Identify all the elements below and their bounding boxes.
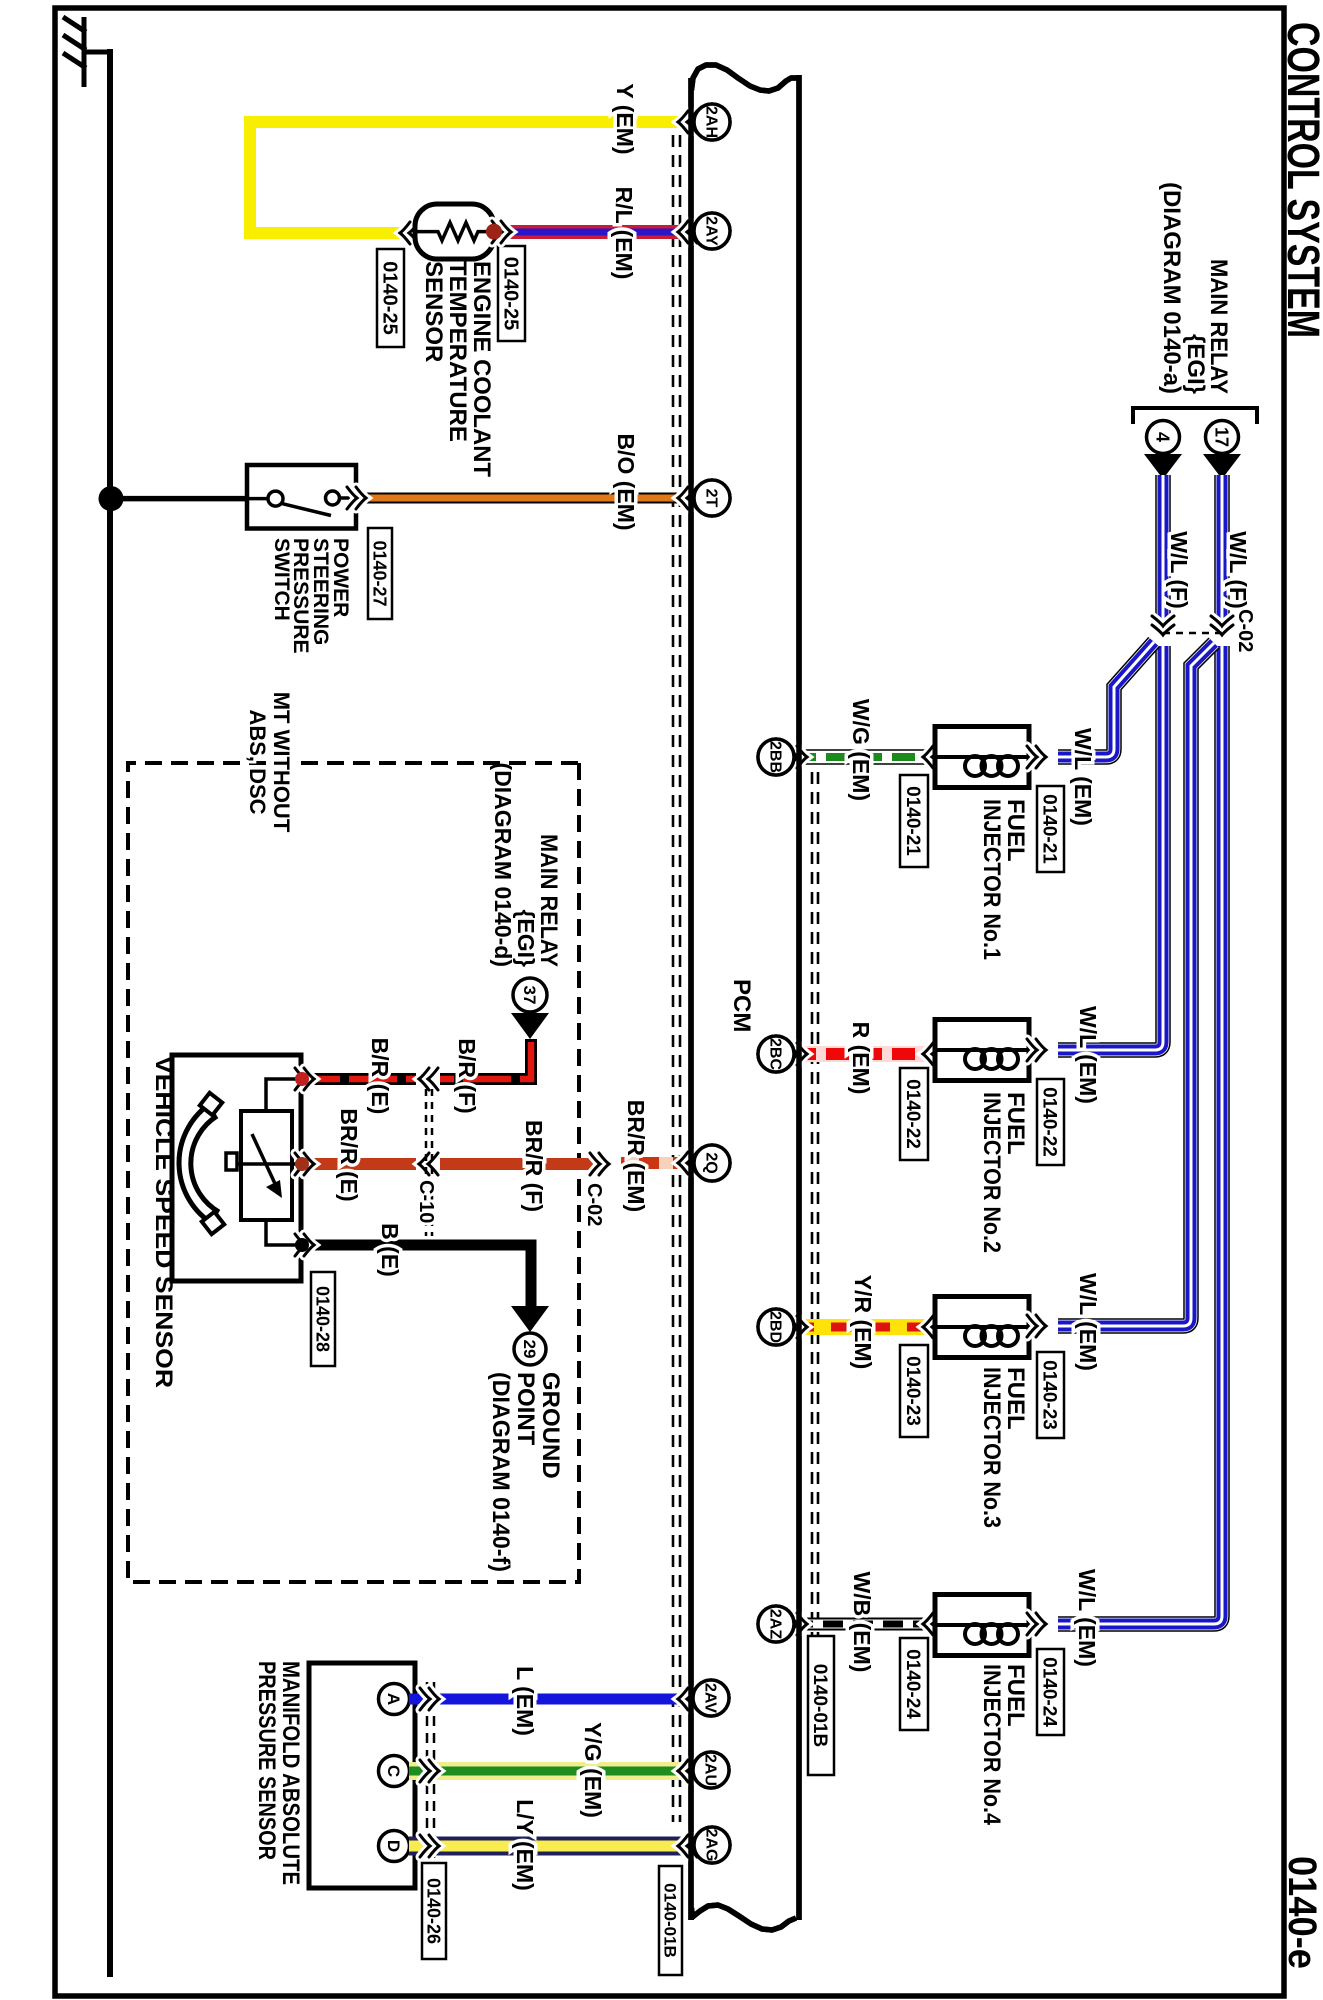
wire Y (EM): [250, 122, 690, 233]
ground symbol: [63, 17, 86, 87]
node VSS pin dots redraw: [295, 1072, 309, 1086]
svg-text:FUEL: FUEL: [1002, 1092, 1029, 1155]
svg-text:17: 17: [1212, 427, 1232, 447]
svg-text:0140-22: 0140-22: [1039, 1087, 1060, 1157]
svg-text:(DIAGRAM 0140-d): (DIAGRAM 0140-d): [490, 763, 516, 967]
wire L/Y (EM): [409, 1837, 690, 1856]
wire W/L pin4 run to injector No.2: [1058, 646, 1163, 1050]
svg-text:4: 4: [1153, 432, 1173, 442]
svg-text:2BD: 2BD: [766, 1311, 783, 1343]
pin C: [379, 1756, 410, 1787]
power steering pressure switch: [247, 465, 356, 529]
chevrons Y/R at PCM: [788, 1316, 807, 1338]
svg-text:0140-25: 0140-25: [378, 261, 400, 334]
svg-text:FUEL: FUEL: [1002, 1367, 1029, 1430]
svg-text:W/L (F): W/L (F): [1225, 531, 1251, 609]
svg-text:R (EM): R (EM): [848, 1022, 874, 1095]
node 2AV: [693, 1680, 729, 1716]
svg-text:ABS, DSC: ABS, DSC: [245, 709, 270, 814]
label 0140-22 right: [1037, 1079, 1064, 1165]
node 2BD: [758, 1309, 794, 1345]
node 2AZ: [758, 1606, 794, 1642]
svg-text:B/R (F): B/R (F): [454, 1038, 480, 1113]
svg-text:L (EM): L (EM): [512, 1666, 538, 1736]
label 0140-23 left: [900, 1345, 928, 1437]
node 2T: [694, 480, 730, 516]
node junction dot on ground bus: [99, 486, 124, 511]
wire BR/R (E)/(F): [302, 1158, 596, 1170]
node VSS pin B/R: [295, 1072, 309, 1086]
pin D: [379, 1831, 410, 1862]
svg-text:Y (EM): Y (EM): [612, 83, 638, 154]
label 0140-25 right: [498, 246, 525, 341]
wire W/L (F) pin17 to C-02: [1214, 475, 1230, 624]
node ECT/R-L junction dot: [486, 224, 502, 240]
svg-text:0140-01B: 0140-01B: [660, 1883, 679, 1958]
svg-text:STEERING: STEERING: [309, 538, 332, 645]
svg-text:PRESSURE SENSOR: PRESSURE SENSOR: [253, 1661, 280, 1860]
node VSS pin BR/R: [295, 1157, 309, 1171]
wire BR/R (EM): [621, 1157, 693, 1169]
fuel injector No.4: [935, 1595, 1029, 1656]
wire EM harness dashed pair (upper): [812, 772, 818, 1636]
svg-text:Y/G (EM): Y/G (EM): [580, 1722, 606, 1818]
svg-text:INJECTOR No.2: INJECTOR No.2: [978, 1092, 1005, 1253]
wire Y/R (EM): [793, 1319, 935, 1335]
MAP dashed pair: [433, 1682, 436, 1858]
node 2BB: [758, 739, 794, 775]
vehicle speed sensor: [172, 1055, 301, 1281]
engine coolant temperature sensor: [415, 204, 494, 259]
node circles redraw: [694, 104, 730, 140]
wire Y/G (EM): [409, 1762, 690, 1780]
svg-text:MAIN RELAY: MAIN RELAY: [1205, 259, 1232, 394]
wire W/B (EM): [793, 1618, 935, 1631]
wire L (EM): [409, 1694, 690, 1705]
svg-text:{EGI}: {EGI}: [1182, 334, 1209, 394]
PCM body redraw: [796, 75, 802, 1920]
svg-text:0140-23: 0140-23: [1039, 1360, 1060, 1430]
svg-text:POWER: POWER: [329, 538, 352, 617]
label 0140-21 right: [1037, 786, 1064, 872]
svg-text:MAIN RELAY: MAIN RELAY: [535, 834, 562, 967]
arrow to main relay 0140-d: [511, 1013, 549, 1039]
svg-text:B/R (E): B/R (E): [367, 1038, 393, 1115]
wire ground bus: [107, 49, 113, 1977]
svg-text:0140-27: 0140-27: [370, 540, 390, 606]
node 2AY: [694, 213, 730, 249]
svg-text:37: 37: [520, 986, 539, 1005]
svg-text:GROUND: GROUND: [537, 1372, 564, 1479]
svg-text:W/L (EM): W/L (EM): [1070, 728, 1096, 826]
node 2AU: [693, 1752, 729, 1788]
node ground point 29: [514, 1333, 546, 1365]
arrow from pin 4: [1144, 454, 1182, 479]
svg-text:0140-23: 0140-23: [902, 1356, 923, 1426]
svg-text:INJECTOR No.1: INJECTOR No.1: [978, 799, 1005, 960]
svg-text:SWITCH: SWITCH: [270, 538, 293, 621]
svg-text:PCM: PCM: [728, 979, 755, 1032]
label 0140-24 left: [900, 1638, 928, 1730]
wire ground link: [85, 50, 110, 55]
connector C-02 break on BR/R: [590, 1153, 609, 1175]
wire W/L branch to injector No.1: [1058, 642, 1154, 757]
svg-text:C-10: C-10: [415, 1180, 437, 1223]
wire B (E) to ground point: [302, 1245, 531, 1306]
svg-text:W/L (F): W/L (F): [1166, 531, 1192, 609]
svg-text:29: 29: [520, 1340, 539, 1359]
svg-text:BR/R (EM): BR/R (EM): [623, 1100, 649, 1212]
PCM body: [691, 65, 799, 1930]
svg-text:C: C: [384, 1765, 403, 1777]
chevrons W/B at PCM: [788, 1613, 807, 1635]
label 0140-22 left: [900, 1068, 928, 1160]
svg-text:W/L (EM): W/L (EM): [1075, 1273, 1101, 1371]
svg-text:2AY: 2AY: [702, 216, 719, 246]
svg-text:2AG: 2AG: [702, 1829, 719, 1862]
label 0140-27: [368, 528, 392, 619]
svg-text:W/B (EM): W/B (EM): [849, 1572, 875, 1673]
label 0140-01B lower: [659, 1866, 682, 1975]
svg-text:2AZ: 2AZ: [766, 1609, 783, 1639]
svg-text:0140-25: 0140-25: [499, 257, 521, 330]
pin 17: [1206, 421, 1239, 454]
svg-text:Y/R (EM): Y/R (EM): [850, 1275, 876, 1370]
svg-text:0140-21: 0140-21: [902, 786, 923, 856]
wire B/R: [302, 1039, 531, 1079]
pin 4: [1147, 421, 1180, 454]
svg-text:MT WITHOUT: MT WITHOUT: [269, 692, 294, 833]
svg-text:0140-26: 0140-26: [424, 1878, 444, 1944]
svg-text:0140-21: 0140-21: [1039, 794, 1060, 864]
svg-text:0140-24: 0140-24: [902, 1649, 923, 1719]
svg-text:2Q: 2Q: [702, 1152, 719, 1173]
svg-text:ENGINE COOLANT: ENGINE COOLANT: [468, 261, 495, 477]
wire R (EM): [793, 1046, 935, 1062]
svg-text:D: D: [384, 1840, 403, 1852]
fuel injector No.3: [935, 1297, 1029, 1358]
svg-text:0140-22: 0140-22: [902, 1079, 923, 1149]
svg-text:B (E): B (E): [377, 1223, 403, 1277]
connector C-02 break: [1211, 616, 1233, 635]
svg-text:(DIAGRAM 0140-a): (DIAGRAM 0140-a): [1158, 182, 1185, 394]
connector C-10 dashes: [431, 1089, 434, 1236]
label 0140-28: [311, 1272, 335, 1366]
node 2BC: [758, 1036, 794, 1072]
svg-text:BR/R (E): BR/R (E): [336, 1108, 362, 1201]
arrow from pin 17: [1203, 454, 1241, 479]
svg-text:FUEL: FUEL: [1002, 799, 1029, 862]
svg-text:POINT: POINT: [512, 1372, 539, 1446]
wire R/L (EM): [502, 225, 690, 239]
svg-text:2BC: 2BC: [766, 1038, 783, 1070]
svg-text:0140-28: 0140-28: [313, 1286, 333, 1352]
node ECT junction dot (redraw on top): [486, 224, 502, 240]
svg-text:INJECTOR No.3: INJECTOR No.3: [978, 1367, 1005, 1528]
svg-text:C-02: C-02: [583, 1183, 605, 1226]
fuel injector No.1: [935, 727, 1029, 788]
label 0140-25 left: [377, 249, 404, 347]
svg-text:0140-01B: 0140-01B: [809, 1664, 830, 1747]
svg-text:0140-24: 0140-24: [1039, 1657, 1060, 1727]
svg-text:(DIAGRAM 0140-f): (DIAGRAM 0140-f): [487, 1372, 514, 1572]
label 0140-21 left: [900, 775, 928, 867]
connector C-10 break on B/R: [416, 1071, 440, 1087]
svg-text:W/L (EM): W/L (EM): [1075, 1006, 1101, 1104]
label 0140-01B upper: [808, 1636, 834, 1775]
svg-text:W/L (EM): W/L (EM): [1074, 1569, 1100, 1667]
option box MT WITHOUT ABS, DSC: [128, 763, 579, 1582]
chevrons R at PCM: [788, 1043, 807, 1065]
svg-text:CONTROL SYSTEM: CONTROL SYSTEM: [1278, 22, 1323, 338]
label 0140-24 right: [1037, 1649, 1064, 1735]
svg-text:2AU: 2AU: [701, 1754, 718, 1786]
wire W/L branch to injector No.3: [1058, 643, 1214, 1326]
wire W/L (F) pin4 to C-02: [1155, 475, 1171, 624]
svg-text:2T: 2T: [702, 489, 719, 508]
node 2AG: [694, 1827, 730, 1863]
svg-text:L/Y (EM): L/Y (EM): [512, 1799, 538, 1891]
wire EM harness dashed pair (lower): [673, 135, 680, 1822]
svg-text:TEMPERATURE: TEMPERATURE: [444, 261, 471, 442]
svg-text:R/L (EM): R/L (EM): [611, 187, 637, 280]
node main relay 37: [513, 978, 547, 1012]
svg-text:2AH: 2AH: [702, 106, 719, 138]
arrow to ground point: [511, 1306, 549, 1332]
svg-text:2AV: 2AV: [701, 1683, 718, 1713]
svg-text:VEHICLE SPEED SENSOR: VEHICLE SPEED SENSOR: [150, 1056, 177, 1388]
svg-text:B/O (EM): B/O (EM): [613, 433, 639, 530]
node 2AH: [694, 104, 730, 140]
svg-text:{EGI}: {EGI}: [513, 909, 539, 967]
svg-text:2BB: 2BB: [766, 741, 783, 773]
svg-text:INJECTOR No.4: INJECTOR No.4: [978, 1664, 1005, 1826]
svg-text:A: A: [384, 1693, 403, 1705]
wire B/O (EM): [356, 493, 690, 504]
bracket: [1133, 408, 1257, 424]
wire W/L pin17 run to injector No.4: [1058, 646, 1222, 1624]
chevrons W/G at PCM: [788, 746, 807, 768]
svg-text:C-02: C-02: [1234, 609, 1256, 652]
node VSS pin B: [295, 1238, 309, 1252]
pin A: [379, 1684, 410, 1715]
fuel injector No.2: [935, 1020, 1029, 1081]
label 0140-26: [422, 1863, 446, 1959]
manifold absolute pressure sensor: [309, 1663, 415, 1888]
wire W/G (EM): [793, 749, 935, 765]
svg-text:BR/R (F): BR/R (F): [521, 1120, 547, 1212]
svg-text:MANIFOLD ABSOLUTE: MANIFOLD ABSOLUTE: [277, 1661, 304, 1885]
svg-text:0140-e: 0140-e: [1280, 1856, 1323, 1969]
wire switch feed: [111, 496, 249, 502]
svg-text:SENSOR: SENSOR: [420, 261, 447, 362]
node 2Q: [694, 1145, 730, 1181]
svg-text:FUEL: FUEL: [1002, 1664, 1029, 1727]
label 0140-23 right: [1037, 1352, 1064, 1438]
svg-text:W/G (EM): W/G (EM): [848, 699, 874, 801]
chevrons above injectors: [1027, 746, 1046, 768]
